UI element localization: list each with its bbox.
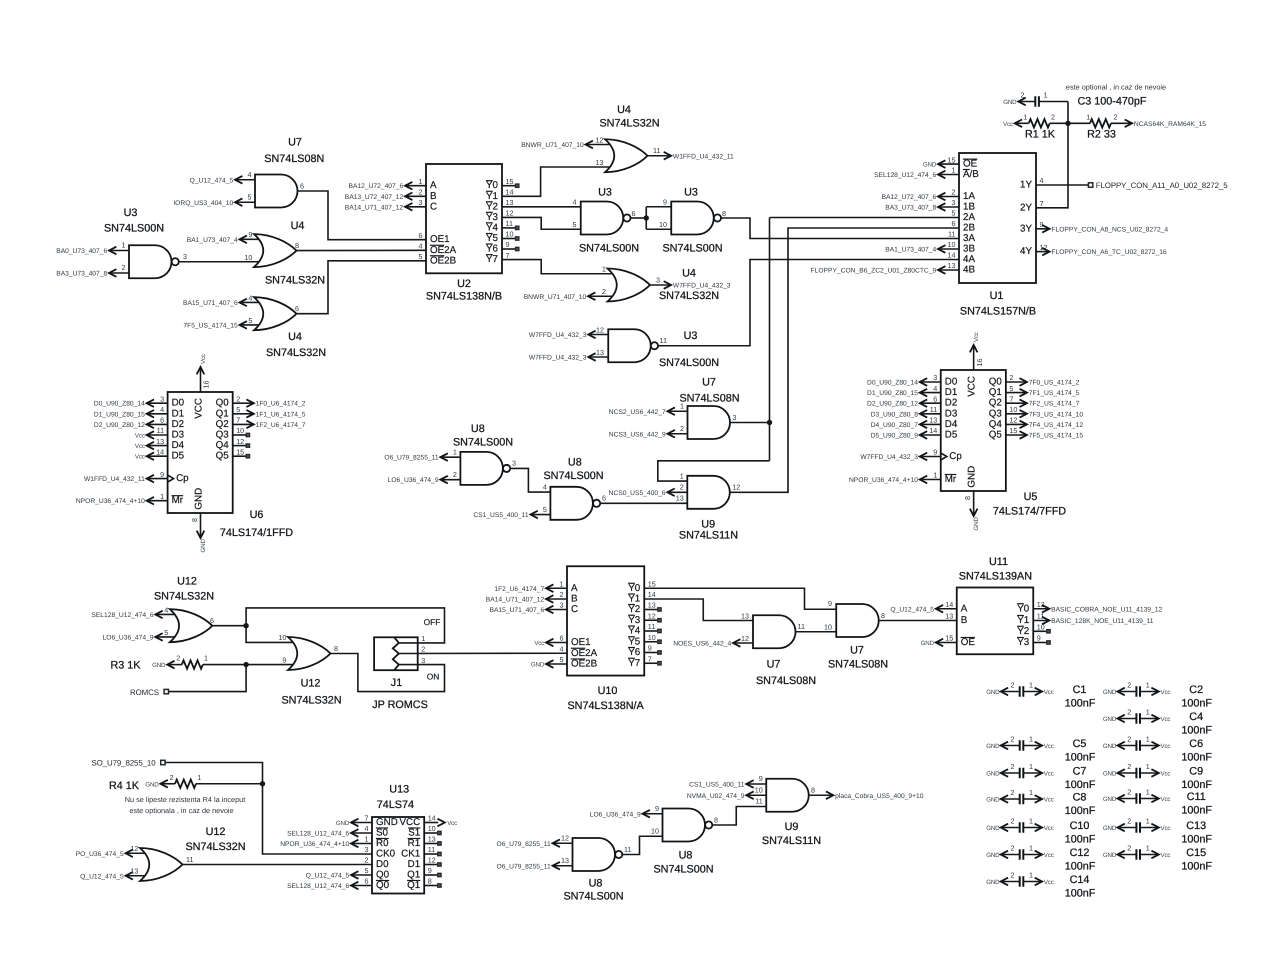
svg-text:W1FFD_U4_432_11: W1FFD_U4_432_11 (673, 153, 734, 160)
label PO_U36_474_5 (U12c pin12) (126, 852, 146, 854)
svg-text:14: 14 (929, 426, 937, 435)
svg-text:este optionala , in caz de nev: este optionala , in caz de nevoie (129, 806, 233, 815)
svg-text:D2: D2 (172, 419, 185, 430)
svg-text:14: 14 (506, 188, 514, 197)
svg-text:100nF: 100nF (1181, 833, 1212, 845)
svg-text:Y1: Y1 (486, 191, 498, 202)
svg-text:Q5: Q5 (216, 451, 230, 462)
svg-text:este optional , in caz de nevo: este optional , in caz de nevoie (1066, 83, 1166, 92)
svg-text:1: 1 (1029, 735, 1033, 744)
gate U8d SN74LS00N (NAND) (663, 809, 706, 842)
resistor R1 1K (1015, 122, 1029, 124)
svg-text:1: 1 (1044, 91, 1048, 100)
svg-text:SN74LS11N: SN74LS11N (679, 529, 738, 541)
label NVMA_U02_474_9 (U9b pin10) (746, 794, 766, 796)
svg-text:R4 1K: R4 1K (109, 780, 140, 792)
svg-text:3: 3 (733, 413, 737, 422)
wire 2A net to U9a in1 (658, 461, 770, 481)
svg-text:D0_U90_Z80_14: D0_U90_Z80_14 (94, 401, 145, 408)
svg-text:OE2B: OE2B (430, 255, 457, 266)
svg-text:4: 4 (573, 198, 577, 207)
svg-text:C14: C14 (1070, 874, 1090, 886)
label O6_U79_8255_11 (U8c pin13) (553, 865, 573, 867)
label BNWR_U71_407_10 (U4c pin12) (586, 144, 611, 146)
svg-text:GND: GND (1003, 99, 1017, 106)
svg-text:A: A (571, 583, 578, 594)
svg-text:R2 33: R2 33 (1087, 129, 1116, 141)
svg-text:Vcc: Vcc (1161, 852, 1171, 859)
svg-text:C3 100-470pF: C3 100-470pF (1077, 96, 1146, 108)
svg-text:2: 2 (1127, 762, 1131, 771)
wire R3 to U12b in9 (203, 664, 294, 666)
svg-text:U8: U8 (679, 850, 693, 862)
svg-text:2: 2 (680, 483, 684, 492)
svg-text:12: 12 (506, 209, 514, 218)
IC U13 74LS74 box (372, 817, 424, 894)
svg-text:11: 11 (660, 336, 667, 345)
U5 GND pin8 power GND (973, 491, 975, 516)
U5 pin1 Mr label NPOR_U36_474_4+10 (920, 479, 941, 481)
J1 pin1 line (399, 642, 418, 644)
svg-text:GND: GND (986, 796, 1000, 803)
svg-text:Y4: Y4 (486, 222, 499, 233)
svg-text:5: 5 (560, 655, 564, 664)
svg-text:A: A (961, 603, 968, 614)
svg-text:1: 1 (453, 447, 457, 456)
IC U11 SN74LS139AN box (957, 588, 1034, 655)
wire U10 Y0 to U7d in9 (644, 588, 836, 609)
svg-text:Y0: Y0 (486, 180, 499, 191)
svg-text:100nF: 100nF (1065, 751, 1096, 763)
U13 pin7 GND label GND (351, 822, 372, 824)
svg-text:Y4: Y4 (628, 626, 641, 637)
svg-text:4: 4 (933, 384, 937, 393)
svg-text:9: 9 (1037, 634, 1041, 643)
label NCAS64K_RAM64K_15 (R2 pin2) (1111, 122, 1132, 124)
svg-text:7F4_US_4174_12: 7F4_US_4174_12 (1029, 422, 1084, 429)
svg-text:3: 3 (183, 252, 187, 261)
svg-text:13: 13 (929, 416, 937, 425)
svg-text:BA14_U71_407_12: BA14_U71_407_12 (486, 597, 545, 604)
svg-text:GND: GND (531, 662, 545, 669)
U10 pin5 OE2B label GND (546, 663, 567, 665)
U1 pin13 4B label FLOPPY_CON_B6_ZC2_U01_Z80CTC_9 (938, 269, 959, 271)
U6 VCC pin16 power Vcc (200, 367, 202, 392)
U5 pin14 D5 label D5_U90_Z80_9 (920, 434, 941, 436)
svg-text:9: 9 (160, 470, 164, 479)
svg-text:U3: U3 (598, 187, 612, 199)
svg-text:D5: D5 (172, 451, 185, 462)
svg-text:1: 1 (204, 654, 208, 663)
svg-text:11: 11 (755, 797, 762, 806)
svg-text:1F1_U6_4174_5: 1F1_U6_4174_5 (256, 411, 306, 418)
label NCS0_US5_400_6 (U9a pin2) (667, 491, 687, 493)
svg-text:1: 1 (1146, 735, 1150, 744)
svg-text:1: 1 (680, 401, 684, 410)
svg-text:U7: U7 (702, 377, 716, 389)
svg-text:1F2_U6_4174_7: 1F2_U6_4174_7 (494, 586, 544, 593)
wire R4 to junction (196, 783, 263, 785)
svg-text:R3 1K: R3 1K (110, 659, 141, 671)
svg-text:BA1_U73_407_4: BA1_U73_407_4 (885, 247, 936, 254)
svg-text:C11: C11 (1187, 791, 1206, 803)
svg-text:Vcc: Vcc (1161, 689, 1171, 696)
svg-text:11: 11 (428, 845, 435, 854)
U1 pin10 3B label BA1_U73_407_4 (938, 248, 959, 250)
U5 pin3 D0 label D0_U90_Z80_14 (920, 381, 941, 383)
svg-text:13: 13 (676, 494, 684, 503)
svg-text:12: 12 (648, 611, 656, 620)
svg-text:5: 5 (419, 252, 423, 261)
svg-text:D1_U90_Z80_15: D1_U90_Z80_15 (867, 390, 918, 397)
svg-text:Q1: Q1 (216, 408, 229, 419)
svg-text:Vcc: Vcc (534, 640, 544, 647)
svg-text:SEL128_U12_474_6: SEL128_U12_474_6 (287, 831, 349, 838)
svg-text:6: 6 (210, 616, 214, 625)
svg-text:GND: GND (1103, 796, 1117, 803)
svg-text:C1: C1 (1073, 684, 1087, 696)
svg-text:U4: U4 (291, 220, 305, 232)
svg-text:1: 1 (1029, 788, 1033, 797)
svg-text:5: 5 (164, 628, 168, 637)
svg-text:1: 1 (1029, 871, 1033, 880)
svg-text:5: 5 (248, 316, 252, 325)
svg-text:6: 6 (365, 877, 369, 886)
svg-text:Q_U12_474_5: Q_U12_474_5 (306, 873, 350, 880)
svg-text:8: 8 (190, 518, 199, 522)
svg-text:13: 13 (741, 611, 749, 620)
svg-text:PO_U36_474_5: PO_U36_474_5 (76, 851, 124, 858)
svg-text:GND: GND (923, 162, 937, 169)
wire U7c out to U7d in10 (796, 631, 837, 633)
wire U8a out to U8b in4 (510, 468, 550, 492)
svg-text:10: 10 (648, 633, 656, 642)
U5 pin13 D4 label D4_U90_Z80_7 (920, 423, 941, 425)
svg-text:W7FFD_U4_432_3: W7FFD_U4_432_3 (529, 332, 587, 339)
svg-text:1F2_U6_4174_7: 1F2_U6_4174_7 (256, 422, 306, 429)
svg-text:W7FFD_U4_432_3: W7FFD_U4_432_3 (529, 355, 587, 362)
svg-text:9: 9 (655, 804, 659, 813)
svg-text:2: 2 (122, 263, 126, 272)
svg-text:2: 2 (176, 654, 180, 663)
svg-text:9: 9 (759, 774, 763, 783)
svg-text:Vcc: Vcc (1044, 879, 1054, 886)
svg-text:Q0: Q0 (376, 880, 390, 891)
svg-text:GND: GND (1103, 743, 1117, 750)
svg-text:16: 16 (202, 381, 211, 389)
svg-text:Vcc: Vcc (1161, 770, 1171, 777)
svg-text:1: 1 (1146, 708, 1150, 717)
svg-text:2: 2 (602, 287, 606, 296)
svg-text:5: 5 (365, 866, 369, 875)
svg-text:100nF: 100nF (1065, 805, 1096, 817)
svg-text:NCS0_US5_400_6: NCS0_US5_400_6 (609, 490, 666, 497)
svg-text:SN74LS32N: SN74LS32N (281, 695, 341, 707)
svg-text:Cp: Cp (949, 451, 962, 462)
svg-text:Q2: Q2 (216, 419, 229, 430)
svg-text:100nF: 100nF (1181, 804, 1212, 816)
svg-text:SN74LS00N: SN74LS00N (662, 243, 722, 255)
label BA3_U73_407_8 (U3a pin2) (109, 272, 129, 274)
svg-text:GND: GND (1103, 689, 1117, 696)
svg-text:12: 12 (1009, 416, 1017, 425)
svg-text:C7: C7 (1073, 766, 1087, 778)
svg-text:100nF: 100nF (1181, 779, 1212, 791)
svg-text:100nF: 100nF (1065, 779, 1096, 791)
svg-text:100nF: 100nF (1181, 751, 1212, 763)
svg-text:4B: 4B (963, 265, 975, 276)
U6 pin6 D2 label D2_U90_Z80_12 (147, 423, 168, 425)
wire ROMCS to R3 net (169, 665, 246, 692)
gate U4d SN74LS32N (OR) W7FFD (608, 269, 651, 302)
svg-text:C2: C2 (1189, 684, 1203, 696)
svg-text:2A: 2A (963, 212, 975, 223)
svg-text:8: 8 (334, 644, 338, 653)
svg-text:B: B (571, 594, 578, 605)
label NCS2_US6_442_7 (U7b pin1) (668, 410, 688, 412)
wire U3c out to U1 3A (721, 218, 959, 239)
svg-text:11: 11 (624, 845, 631, 854)
svg-text:3A: 3A (963, 233, 975, 244)
svg-text:7F1_US_4174_5: 7F1_US_4174_5 (1029, 390, 1080, 397)
svg-text:Y3: Y3 (628, 615, 641, 626)
svg-text:6: 6 (602, 494, 606, 503)
svg-text:OE1: OE1 (430, 234, 450, 245)
svg-text:GND: GND (200, 539, 207, 553)
svg-text:2: 2 (365, 856, 369, 865)
U11 pin15 OE label GND (936, 642, 957, 644)
svg-text:1: 1 (1146, 817, 1150, 826)
svg-text:2Y: 2Y (1020, 202, 1032, 213)
wire U2 Y2 to U3b in4 (502, 206, 581, 208)
svg-text:13: 13 (130, 867, 138, 876)
svg-text:VCC: VCC (967, 376, 978, 397)
svg-text:D2: D2 (945, 398, 958, 409)
svg-text:SN74LS32N: SN74LS32N (154, 591, 214, 603)
svg-text:SN74LS00N: SN74LS00N (579, 243, 639, 255)
svg-text:9: 9 (828, 599, 832, 608)
svg-text:9: 9 (663, 198, 667, 207)
svg-text:R1 1K: R1 1K (1025, 129, 1056, 141)
svg-text:7: 7 (365, 814, 369, 823)
svg-text:11: 11 (506, 219, 513, 228)
svg-text:OFF: OFF (424, 617, 441, 627)
svg-text:1: 1 (1029, 817, 1033, 826)
svg-text:SN74LS08N: SN74LS08N (264, 153, 324, 165)
svg-text:Y2: Y2 (486, 201, 498, 212)
svg-text:1B: 1B (963, 202, 975, 213)
svg-text:13: 13 (506, 198, 514, 207)
wire U3d out to U1 4A (658, 260, 959, 346)
svg-text:2: 2 (236, 394, 240, 403)
label CS1_US5_400_11 (U9b pin9) (746, 783, 766, 785)
svg-text:Vcc: Vcc (135, 433, 145, 440)
svg-text:1: 1 (1146, 844, 1150, 853)
svg-text:4: 4 (164, 605, 168, 614)
svg-text:SN74LS08N: SN74LS08N (756, 675, 816, 687)
svg-text:Vcc: Vcc (1044, 796, 1054, 803)
label W1FFD_U4_432_11 (U4c out pin11) (648, 155, 672, 157)
svg-text:CS1_US5_400_11: CS1_US5_400_11 (473, 512, 529, 519)
svg-text:7: 7 (1040, 199, 1044, 208)
svg-text:2: 2 (1021, 91, 1025, 100)
svg-text:10: 10 (755, 785, 763, 794)
U1 pin1 A/B label SEL128_U12_474_6 (938, 174, 959, 176)
junction dot U12a out (243, 623, 248, 628)
svg-text:3: 3 (560, 601, 564, 610)
svg-text:2: 2 (170, 773, 174, 782)
U2 pin2 B label BA13_U72_407_12 (405, 195, 426, 197)
IC U6 box (168, 392, 233, 513)
junction dot U3b-U3c (644, 215, 649, 220)
svg-text:W7FFD_U4_432_3: W7FFD_U4_432_3 (860, 454, 918, 461)
svg-text:Y1: Y1 (628, 594, 640, 605)
wire U7b out to vertical x769 (2A net) (730, 422, 770, 424)
svg-text:GND: GND (336, 820, 350, 827)
svg-text:13: 13 (648, 601, 656, 610)
svg-text:OE1: OE1 (571, 637, 591, 648)
svg-text:4: 4 (248, 170, 252, 179)
svg-text:Y5: Y5 (628, 636, 641, 647)
svg-text:U13: U13 (389, 784, 409, 796)
IC U5 box (941, 370, 1006, 491)
U13 pin6 Q0bar label SEL128_U12_474_6 (351, 885, 372, 887)
wire SO net to U13 CK0 (166, 763, 373, 855)
svg-text:Vcc: Vcc (1161, 743, 1171, 750)
svg-text:D2_U90_Z80_12: D2_U90_Z80_12 (94, 422, 145, 429)
svg-text:5: 5 (236, 405, 240, 414)
svg-text:7: 7 (1009, 394, 1013, 403)
svg-text:Vcc: Vcc (135, 443, 145, 450)
svg-text:1: 1 (197, 773, 201, 782)
U10 pin6 OE1 label Vcc (546, 642, 567, 644)
svg-text:5: 5 (543, 505, 547, 514)
svg-text:NCS3_US6_442_9: NCS3_US6_442_9 (609, 431, 666, 438)
svg-text:Cp: Cp (176, 473, 189, 484)
svg-text:5: 5 (573, 220, 577, 229)
svg-text:4: 4 (560, 644, 564, 653)
svg-text:7F2_US_4174_7: 7F2_US_4174_7 (1029, 401, 1080, 408)
label LO6_U36_474_9 (U8d pin9) (643, 813, 663, 815)
svg-text:74LS74: 74LS74 (377, 799, 414, 811)
svg-text:2: 2 (419, 188, 423, 197)
svg-text:BA12_U72_407_6: BA12_U72_407_6 (349, 183, 404, 190)
svg-text:11: 11 (157, 426, 164, 435)
svg-text:GND: GND (376, 817, 398, 828)
label NOES_US6_442_4 (U7c pin12) (733, 642, 753, 644)
svg-text:U4: U4 (682, 267, 696, 279)
IC U2 SN74LS138N/B box (426, 164, 502, 273)
svg-text:SN74LS00N: SN74LS00N (543, 470, 603, 482)
svg-text:SN74LS00N: SN74LS00N (104, 223, 164, 235)
svg-text:Y6: Y6 (628, 647, 641, 658)
svg-text:U12: U12 (301, 677, 321, 689)
U10 pin1 A label 1F2_U6_4174_7 (546, 587, 567, 589)
resistor R2 33 (1068, 122, 1090, 124)
svg-text:3: 3 (656, 275, 660, 284)
svg-text:2: 2 (1127, 681, 1131, 690)
svg-text:Vcc: Vcc (447, 820, 457, 827)
svg-text:Y1: Y1 (1017, 615, 1029, 626)
svg-text:SN74LS00N: SN74LS00N (653, 863, 713, 875)
svg-text:12: 12 (561, 833, 569, 842)
svg-text:74LS174/7FFD: 74LS174/7FFD (993, 506, 1066, 518)
wire U10 Y1 to U7c in13 (644, 599, 753, 621)
svg-text:11: 11 (1037, 612, 1044, 621)
svg-text:100nF: 100nF (1065, 697, 1096, 709)
svg-text:5: 5 (952, 209, 956, 218)
svg-text:GND: GND (986, 770, 1000, 777)
svg-text:BA3_U73_407_8: BA3_U73_407_8 (885, 205, 936, 212)
svg-text:SN74LS00N: SN74LS00N (563, 891, 623, 903)
gate U3a SN74LS00N (NAND) (129, 245, 171, 278)
svg-text:C8: C8 (1073, 792, 1087, 804)
svg-text:100nF: 100nF (1181, 697, 1212, 709)
svg-text:A: A (430, 180, 437, 191)
svg-text:Q_U12_474_5: Q_U12_474_5 (890, 606, 934, 613)
svg-text:Mr: Mr (172, 495, 184, 506)
svg-text:2: 2 (1011, 844, 1015, 853)
U5 pin9 Cp label W7FFD_U4_432_3 (920, 456, 941, 458)
svg-text:4: 4 (419, 242, 423, 251)
label Q_U12_474_5 (U7a pin4) (235, 179, 255, 181)
svg-text:2: 2 (1051, 112, 1055, 121)
svg-text:SN74LS32N: SN74LS32N (265, 275, 325, 287)
svg-text:U8: U8 (589, 877, 603, 889)
svg-text:LO6_U36_474_9: LO6_U36_474_9 (103, 634, 154, 641)
svg-text:D4: D4 (945, 419, 958, 430)
svg-text:12: 12 (236, 437, 244, 446)
svg-text:2: 2 (1127, 817, 1131, 826)
svg-text:9: 9 (506, 240, 510, 249)
label BA0_U73_407_6 (U3a pin1) (109, 250, 129, 252)
svg-text:2: 2 (1114, 112, 1118, 121)
svg-text:GND: GND (921, 640, 935, 647)
wire vertical x769 2A net (769, 218, 771, 461)
gate U9a SN74LS11N (AND3) (687, 476, 730, 509)
svg-text:10: 10 (506, 230, 514, 239)
svg-text:U8: U8 (568, 456, 582, 468)
wire U3b out to junction (631, 217, 647, 219)
junction dot R3/ROMCS (243, 662, 248, 667)
svg-text:1: 1 (1029, 762, 1033, 771)
svg-text:Vcc: Vcc (1044, 770, 1054, 777)
svg-text:VCC: VCC (194, 398, 205, 419)
svg-text:FLOPPY_CON_B6_ZC2_U01_Z80CTC_9: FLOPPY_CON_B6_ZC2_U01_Z80CTC_9 (811, 268, 937, 275)
wire U2 Y3 to U3b in5 (502, 217, 581, 229)
svg-text:Vcc: Vcc (1161, 825, 1171, 832)
svg-text:BA13_U72_407_12: BA13_U72_407_12 (345, 194, 404, 201)
svg-text:U3: U3 (684, 187, 698, 199)
svg-text:1: 1 (1023, 112, 1027, 121)
svg-text:2: 2 (1127, 708, 1131, 717)
svg-text:Y5: Y5 (486, 233, 499, 244)
label SEL128_U12_474_6 (U12a pin4) (155, 613, 175, 615)
U10 pin3 C label BA15_U71_407_6 (546, 609, 567, 611)
svg-text:Y2: Y2 (1017, 626, 1029, 637)
svg-text:14: 14 (945, 600, 953, 609)
svg-text:U12: U12 (177, 575, 197, 587)
wire U7d out to U11 B (879, 620, 957, 622)
svg-text:C6: C6 (1189, 738, 1203, 750)
svg-text:Vcc: Vcc (1044, 743, 1054, 750)
svg-text:U1: U1 (990, 290, 1004, 302)
svg-text:10: 10 (244, 253, 252, 262)
svg-text:R0: R0 (376, 838, 389, 849)
gate U3b SN74LS00N (NAND) (581, 202, 624, 235)
U13 pin1 R0 label NPOR_U36_474_4+10 (351, 843, 372, 845)
svg-text:U6: U6 (250, 509, 264, 521)
